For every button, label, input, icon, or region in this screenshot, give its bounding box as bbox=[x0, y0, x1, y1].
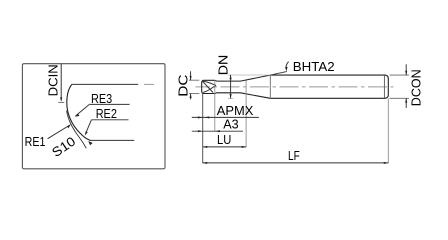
svg-text:A3: A3 bbox=[223, 117, 238, 132]
LF dimension line bbox=[203, 162, 389, 164]
neck top line bbox=[215, 79, 241, 82]
LU dimension line bbox=[203, 146, 246, 148]
bottom surface line (detail) bbox=[90, 139, 134, 141]
svg-text:DC: DC bbox=[175, 75, 190, 97]
svg-text:BHTA2: BHTA2 bbox=[293, 59, 335, 74]
centerline bbox=[196, 86, 394, 88]
svg-text:S10: S10 bbox=[49, 134, 78, 160]
svg-text:DCON: DCON bbox=[409, 69, 424, 106]
taper bottom bbox=[241, 93, 271, 99]
DCON extension lines bbox=[390, 74, 410, 76]
RE1 leader bbox=[48, 125, 70, 139]
cutter head outline bbox=[202, 80, 215, 93]
S10 band end arrow bbox=[88, 141, 92, 145]
DC dimension bbox=[189, 71, 199, 99]
detail view frame bbox=[22, 64, 165, 169]
shank-end extension line bbox=[387, 98, 389, 163]
shank bottom extension bbox=[228, 97, 234, 99]
RE2 leader bbox=[85, 120, 91, 135]
flute edge diagonal bbox=[202, 81, 213, 92]
centerline dash (detail) bbox=[144, 83, 154, 85]
svg-text:RE1: RE1 bbox=[25, 134, 46, 149]
svg-text:LF: LF bbox=[288, 148, 300, 163]
flute upper arc bbox=[203, 81, 216, 85]
shank outline bbox=[270, 75, 388, 98]
RE2 underline bbox=[91, 119, 128, 121]
neck-end extension line bbox=[245, 81, 247, 148]
RE3 leader bbox=[76, 105, 90, 116]
shank chamfer line bbox=[383, 75, 385, 98]
svg-text:DN: DN bbox=[215, 55, 230, 76]
flute-end extension line bbox=[214, 80, 216, 131]
svg-text:LU: LU bbox=[217, 132, 231, 147]
DCON dimension bbox=[405, 64, 407, 108]
DCIN dimension line bbox=[58, 64, 64, 103]
flute lower arc bbox=[203, 85, 216, 92]
neck bottom line bbox=[215, 92, 241, 95]
svg-text:RE2: RE2 bbox=[96, 106, 117, 121]
svg-text:DCIN: DCIN bbox=[45, 64, 60, 96]
shank top extension (angle ref) bbox=[228, 74, 270, 76]
taper/shank junction line bbox=[269, 75, 271, 98]
tip extension line bbox=[202, 94, 204, 164]
neck surface line (detail) bbox=[72, 83, 139, 85]
RE3 underline bbox=[89, 103, 129, 105]
corner profile curve bbox=[67, 85, 91, 141]
APMX dimension line bbox=[192, 116, 259, 118]
taper top bbox=[241, 75, 271, 81]
S10 edge band line bbox=[67, 111, 87, 149]
BHTA2 angle leg (taper extension) bbox=[270, 72, 287, 76]
DN dimension bbox=[230, 75, 232, 99]
BHTA2 arc leader bbox=[286, 62, 289, 68]
A3 dimension line bbox=[192, 130, 243, 132]
